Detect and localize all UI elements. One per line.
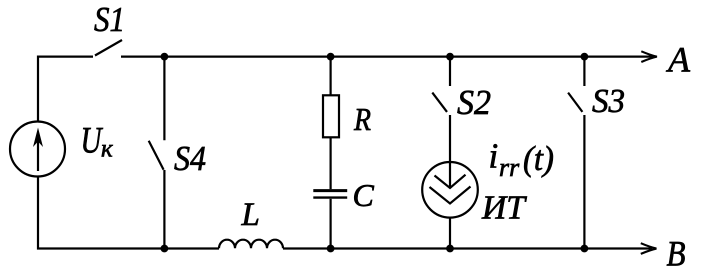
wire S4 branch upper bbox=[163, 57, 165, 141]
current source chevron 2 bbox=[430, 187, 471, 204]
switch S2 blade bbox=[432, 93, 447, 112]
voltage source arrow shaft bbox=[37, 134, 39, 171]
svg-text:L: L bbox=[241, 197, 260, 233]
svg-text:R: R bbox=[353, 101, 371, 137]
switch S1 blade bbox=[95, 40, 122, 56]
svg-text:C: C bbox=[353, 177, 375, 213]
wire S2 to current source bbox=[449, 115, 451, 162]
wire S3 branch lower bbox=[583, 115, 585, 249]
current source arrow shaft bbox=[449, 162, 451, 187]
wire S4 branch lower bbox=[163, 170, 165, 249]
wire S3 branch upper bbox=[583, 57, 585, 86]
svg-text:S1: S1 bbox=[94, 0, 125, 39]
current source chevron 1 bbox=[435, 175, 466, 188]
voltage source arrow head bbox=[33, 128, 43, 148]
current source IT circle bbox=[422, 162, 478, 218]
wire R branch upper bbox=[330, 57, 332, 96]
switch S4 blade bbox=[149, 141, 164, 170]
junction node bottom S4 bbox=[161, 245, 169, 253]
junction node bottom S3 bbox=[581, 245, 589, 253]
svg-text:i: i bbox=[489, 137, 499, 176]
junction node top S4 bbox=[161, 53, 169, 61]
wire left bottom segment bbox=[38, 177, 219, 249]
svg-text:к: к bbox=[101, 135, 113, 162]
switch S3 blade bbox=[568, 93, 582, 112]
junction node top S3 bbox=[581, 53, 589, 61]
resistor R bbox=[323, 95, 339, 137]
arrow head A bbox=[641, 51, 657, 62]
wire R to C bbox=[330, 137, 332, 189]
junction node top S2 bbox=[446, 53, 454, 61]
inductor L bbox=[219, 240, 283, 249]
junction node bottom IT bbox=[446, 245, 454, 253]
voltage source Uk circle bbox=[10, 122, 65, 177]
wire current source to bottom bbox=[449, 218, 451, 249]
svg-text:S3: S3 bbox=[592, 83, 625, 120]
wire S2 branch upper bbox=[449, 57, 451, 86]
wire top main (S1 to arrow A) bbox=[121, 55, 653, 57]
svg-text:B: B bbox=[667, 234, 686, 271]
junction node top RC bbox=[327, 53, 335, 61]
svg-text:rr: rr bbox=[499, 153, 520, 182]
wire C to bottom bbox=[330, 199, 332, 249]
svg-text:S4: S4 bbox=[174, 139, 206, 178]
svg-text:U: U bbox=[81, 120, 104, 161]
junction node bottom RC bbox=[327, 245, 335, 253]
wire bottom main (inductor to arrow B) bbox=[283, 247, 652, 249]
svg-text:(t): (t) bbox=[523, 139, 554, 178]
svg-text:ИТ: ИТ bbox=[481, 190, 527, 227]
wire top-left segment to switch S1 bbox=[38, 57, 93, 122]
capacitor C plates bbox=[313, 189, 347, 192]
svg-text:S2: S2 bbox=[457, 83, 491, 122]
svg-text:A: A bbox=[666, 40, 691, 80]
arrow head B bbox=[641, 243, 657, 254]
